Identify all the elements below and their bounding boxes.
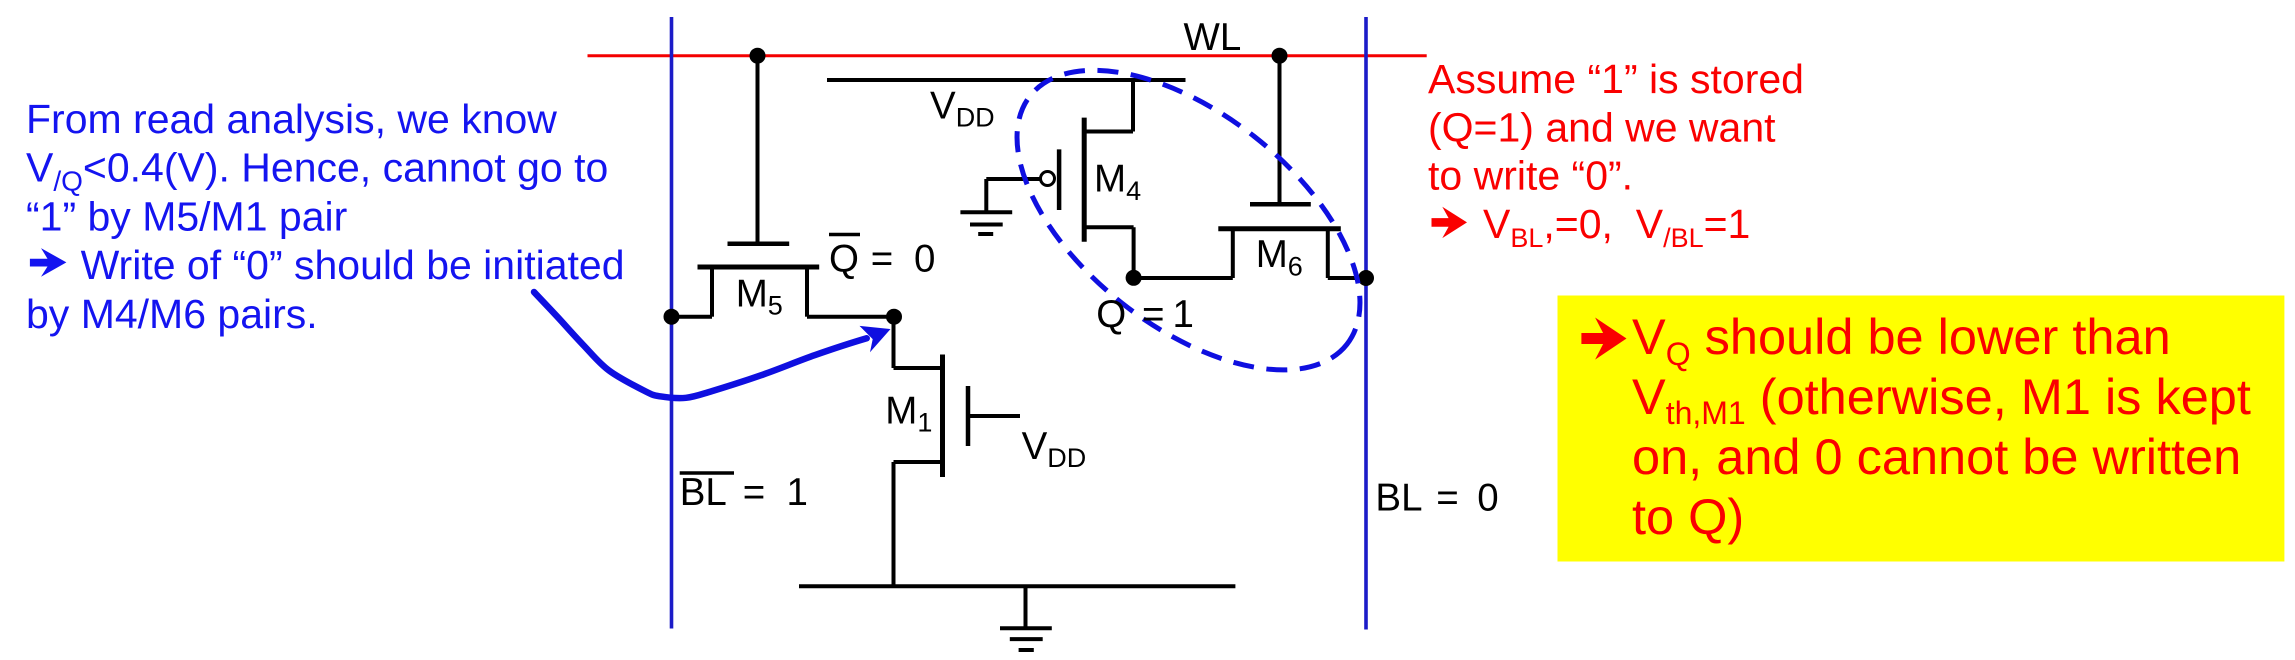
svg-text:to Q): to Q) xyxy=(1632,488,1744,545)
svg-text:Q: Q xyxy=(829,238,859,281)
svg-text:Q: Q xyxy=(1096,293,1126,336)
svg-text:0: 0 xyxy=(914,238,935,281)
svg-text:M6: M6 xyxy=(1256,233,1303,281)
svg-text:1: 1 xyxy=(1173,293,1194,336)
svg-text:=: = xyxy=(871,238,893,281)
svg-text:VDD: VDD xyxy=(930,84,995,132)
svg-text:1: 1 xyxy=(787,471,808,514)
svg-text:M1: M1 xyxy=(885,389,932,437)
svg-text:M4: M4 xyxy=(1094,158,1141,206)
svg-text:=: = xyxy=(1142,293,1164,336)
svg-text:on, and 0 cannot be written: on, and 0 cannot be written xyxy=(1632,428,2241,485)
svg-text:=: = xyxy=(743,471,765,514)
svg-text:VBL,=0, V/BL=1: VBL,=0, V/BL=1 xyxy=(1483,201,1750,253)
svg-text:=: = xyxy=(1436,477,1458,520)
svg-text:by M4/M6 pairs.: by M4/M6 pairs. xyxy=(26,291,318,337)
svg-text:Write of “0” should be initiat: Write of “0” should be initiated xyxy=(81,242,625,288)
svg-text:BL: BL xyxy=(680,471,727,514)
svg-text:“1” by M5/M1 pair: “1” by M5/M1 pair xyxy=(26,193,347,239)
svg-text:to write “0”.: to write “0”. xyxy=(1428,153,1633,199)
svg-text:BL: BL xyxy=(1375,477,1422,520)
svg-text:V/Q<0.4(V). Hence, cannot go t: V/Q<0.4(V). Hence, cannot go to xyxy=(26,145,608,197)
svg-text:VQ should be lower than: VQ should be lower than xyxy=(1632,308,2171,372)
svg-text:VDD: VDD xyxy=(1022,425,1087,473)
svg-text:WL: WL xyxy=(1184,16,1242,59)
svg-text:From read analysis, we know: From read analysis, we know xyxy=(26,96,557,142)
svg-text:M5: M5 xyxy=(736,272,783,320)
svg-text:0: 0 xyxy=(1477,477,1498,520)
svg-text:(Q=1) and we want: (Q=1) and we want xyxy=(1428,104,1776,150)
svg-text:Assume “1” is stored: Assume “1” is stored xyxy=(1428,56,1804,102)
